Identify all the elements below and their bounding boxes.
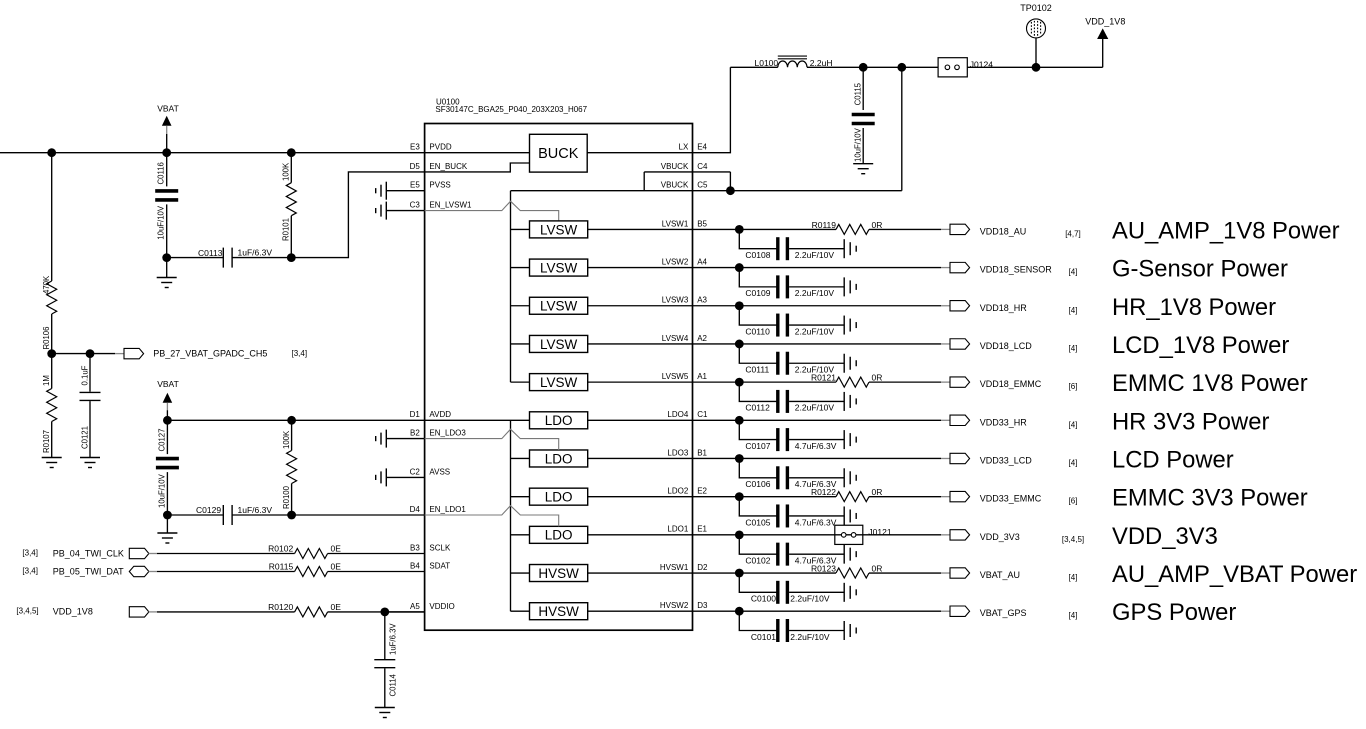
ground R0107 xyxy=(42,458,62,468)
svg-text:LVSW4: LVSW4 xyxy=(662,334,689,343)
label VDD_3V3 xyxy=(1112,523,1218,550)
wire VDD18_SENSOR xyxy=(693,267,951,269)
ground C0111 xyxy=(844,354,856,373)
svg-text:1uF/6.3V: 1uF/6.3V xyxy=(238,505,273,515)
svg-text:0R: 0R xyxy=(872,220,883,230)
pin B1 LDO3 xyxy=(667,448,707,457)
net VDD33_LCD xyxy=(980,455,1033,465)
svg-text:LCD Power: LCD Power xyxy=(1112,446,1234,473)
wire EN_LDO1 to pin D4 xyxy=(292,514,425,516)
svg-text:LDO: LDO xyxy=(545,451,573,466)
wire VDD_3V3 xyxy=(693,534,951,536)
IC U0100 body xyxy=(425,124,693,631)
svg-text:R0119: R0119 xyxy=(812,220,837,230)
svg-text:4.7uF/6.3V: 4.7uF/6.3V xyxy=(795,441,837,451)
capacitor C0121 0.1uF xyxy=(80,354,101,458)
node VDD33_HR junction xyxy=(735,416,744,425)
svg-text:VBAT_AU: VBAT_AU xyxy=(980,570,1020,580)
svg-text:VDD18_LCD: VDD18_LCD xyxy=(980,341,1033,351)
node VDD33_EMMC junction xyxy=(735,492,744,501)
svg-text:0R: 0R xyxy=(872,373,883,383)
wire PB_05_TWI_DAT xyxy=(149,571,295,573)
svg-text:100K: 100K xyxy=(282,162,291,181)
resistor R0115 0E xyxy=(269,561,341,576)
wire PB_04_TWI_CLK xyxy=(149,553,295,555)
wire BUCK to LX xyxy=(587,152,692,154)
svg-text:VDD33_HR: VDD33_HR xyxy=(980,417,1028,427)
svg-text:B5: B5 xyxy=(697,219,707,228)
wire rail to LVSW4 xyxy=(511,343,530,345)
wire VDD33_LCD xyxy=(693,457,951,459)
wire VDD18_LCD xyxy=(693,343,951,345)
IC U0100 part number xyxy=(435,105,587,114)
ref [3,4] PB_27 xyxy=(292,349,308,358)
svg-text:2.2uF/10V: 2.2uF/10V xyxy=(795,250,835,260)
net VDD33_HR xyxy=(980,417,1028,427)
svg-text:E3: E3 xyxy=(410,143,420,152)
ground C0116 xyxy=(157,258,177,288)
pin B5 LVSW1 xyxy=(662,219,708,228)
wire EN_BUCK from R0101 xyxy=(291,172,424,258)
svg-text:HVSW1: HVSW1 xyxy=(660,563,689,572)
wire HVSW11 output xyxy=(588,610,693,612)
svg-text:LDO1: LDO1 xyxy=(667,525,688,534)
node junction R0101 xyxy=(287,148,296,157)
wire J0124 to VDD_1V8 xyxy=(967,38,1102,67)
svg-text:C2: C2 xyxy=(410,467,421,476)
svg-text:C5: C5 xyxy=(697,181,708,190)
resistor R0119 0R xyxy=(812,220,883,235)
svg-text:LDO: LDO xyxy=(545,490,573,505)
svg-text:0.1uF: 0.1uF xyxy=(80,365,89,385)
wire VDD18_AU xyxy=(693,228,951,230)
svg-text:D4: D4 xyxy=(410,505,421,514)
svg-text:R0107: R0107 xyxy=(42,430,51,453)
svg-text:[3,4]: [3,4] xyxy=(292,349,308,358)
ground AVSS pin xyxy=(376,468,425,486)
capacitor C0129 1uF/6.3V xyxy=(167,505,291,525)
wire rail to HVSW10 xyxy=(511,572,530,574)
ground C0121 xyxy=(80,458,100,468)
connector flag VBAT_AU xyxy=(950,568,970,578)
pin E1 LDO1 xyxy=(667,525,707,534)
capacitor C0107 4.7uF/6.3V xyxy=(739,420,844,451)
svg-text:VBUCK: VBUCK xyxy=(661,181,689,190)
ground C0115 xyxy=(853,164,873,174)
connector J0121 xyxy=(835,525,892,544)
pin D5 EN_BUCK xyxy=(410,162,468,171)
svg-text:G-Sensor Power: G-Sensor Power xyxy=(1112,256,1288,283)
svg-text:1uF/6.3V: 1uF/6.3V xyxy=(388,623,397,655)
svg-text:[4]: [4] xyxy=(1069,611,1078,620)
wire PB_27 net xyxy=(52,353,124,355)
node VDDIO junction xyxy=(380,608,389,617)
svg-text:B4: B4 xyxy=(410,561,420,570)
wire LVSW4 output xyxy=(588,343,693,345)
wire inductor to J0124 xyxy=(807,66,938,68)
connector flag VDD33_EMMC xyxy=(950,491,970,501)
svg-text:EMMC 3V3 Power: EMMC 3V3 Power xyxy=(1112,485,1308,512)
svg-text:EN_LVSW1: EN_LVSW1 xyxy=(429,201,472,210)
svg-text:SCLK: SCLK xyxy=(429,543,451,552)
resistor R0120 0E xyxy=(268,602,341,617)
svg-text:A2: A2 xyxy=(697,334,707,343)
node VDD18_EMMC junction xyxy=(735,378,744,387)
block LVSW row3 xyxy=(530,297,588,314)
svg-text:HVSW: HVSW xyxy=(538,604,579,619)
svg-text:C0127: C0127 xyxy=(157,429,166,452)
svg-text:[4]: [4] xyxy=(1069,458,1078,467)
block LDO row7 xyxy=(530,450,588,467)
pin B2 EN_LDO3 xyxy=(410,429,466,438)
resistor R0121 0R xyxy=(811,373,882,388)
svg-text:VDDIO: VDDIO xyxy=(429,602,454,611)
wire VBUCK feedback xyxy=(901,67,903,190)
wire PB_04_TWI_CLK to IC xyxy=(328,553,425,555)
ref [4] row7 xyxy=(1069,458,1078,467)
svg-text:SF30147C_BGA25_P040_203X203_H0: SF30147C_BGA25_P040_203X203_H067 xyxy=(435,105,587,114)
svg-text:GPS Power: GPS Power xyxy=(1112,599,1236,626)
ground C0102 xyxy=(844,545,856,564)
wire rail to HVSW11 xyxy=(511,610,530,612)
pin E5 PVSS xyxy=(410,181,451,190)
block LDO row6 xyxy=(530,412,588,429)
capacitor C0110 2.2uF/10V xyxy=(739,306,844,337)
connector flag VBAT_GPS xyxy=(950,606,970,616)
svg-text:470K: 470K xyxy=(42,275,51,294)
svg-text:D5: D5 xyxy=(410,162,421,171)
svg-text:4.7uF/6.3V: 4.7uF/6.3V xyxy=(795,517,837,527)
svg-text:0E: 0E xyxy=(331,561,342,571)
capacitor C0113 1uF/6.3V xyxy=(167,247,292,267)
svg-text:LVSW5: LVSW5 xyxy=(662,372,689,381)
svg-text:C0106: C0106 xyxy=(745,479,770,489)
svg-text:[3,4,5]: [3,4,5] xyxy=(1062,535,1084,544)
svg-text:HVSW: HVSW xyxy=(538,566,579,581)
wire AVDD rail xyxy=(167,419,424,421)
wire VDD33_EMMC xyxy=(693,496,951,498)
svg-text:LVSW: LVSW xyxy=(540,222,578,237)
wire LVSW supply rail xyxy=(510,191,512,382)
wire rail to LDO9 xyxy=(511,534,530,536)
wire rail to LVSW1 xyxy=(511,228,530,230)
connector flag VDD33_HR xyxy=(950,415,970,425)
svg-text:R0101: R0101 xyxy=(282,218,291,241)
svg-text:BUCK: BUCK xyxy=(538,146,579,162)
svg-text:1M: 1M xyxy=(42,375,51,386)
ground C0100 xyxy=(844,583,856,602)
svg-text:VDD33_EMMC: VDD33_EMMC xyxy=(980,494,1042,504)
label LCD_1V8 Power xyxy=(1112,332,1289,359)
ground EN_LDO3 pin xyxy=(376,430,425,448)
power symbol VBAT xyxy=(157,103,179,152)
pin A2 LVSW4 xyxy=(662,334,708,343)
svg-text:VBUCK: VBUCK xyxy=(661,162,689,171)
svg-text:R0120: R0120 xyxy=(268,602,293,612)
inductor L0100 2.2uH xyxy=(755,56,833,68)
wire LDO8 output xyxy=(588,496,693,498)
node R0101 bottom junction xyxy=(287,253,296,262)
ground C0106 xyxy=(844,468,856,487)
ref [4] row10 xyxy=(1069,573,1078,582)
node VBAT_AU junction xyxy=(735,569,744,578)
node junction R0100 xyxy=(287,416,296,425)
net VDD_1V8 xyxy=(53,607,93,617)
svg-text:C0100: C0100 xyxy=(751,594,776,604)
block LVSW row2 xyxy=(530,259,588,276)
ground C0105 xyxy=(844,506,856,525)
ground C0101 xyxy=(844,621,856,640)
ref [4] row2 xyxy=(1069,268,1078,277)
ground EN_LVSW1 pin xyxy=(376,202,425,220)
wire buck output top xyxy=(730,66,777,68)
wire LDO supply rail xyxy=(510,420,512,611)
pin A3 LVSW3 xyxy=(662,296,708,305)
svg-text:LDO4: LDO4 xyxy=(667,410,688,419)
resistor R0107 1M xyxy=(42,354,57,458)
net VBAT_AU xyxy=(980,570,1020,580)
svg-text:EN_LDO3: EN_LDO3 xyxy=(429,429,466,438)
svg-text:VBAT: VBAT xyxy=(157,379,179,389)
wire rail to LVSW2 xyxy=(511,267,530,269)
svg-text:C0111: C0111 xyxy=(745,365,769,375)
wire VDD33_HR xyxy=(693,419,951,421)
connector flag PB_05_TWI_DAT xyxy=(129,566,149,576)
svg-text:E4: E4 xyxy=(697,143,707,152)
svg-text:LDO: LDO xyxy=(545,528,573,543)
svg-text:EN_BUCK: EN_BUCK xyxy=(429,162,467,171)
label AU_AMP_1V8 Power xyxy=(1112,217,1340,244)
ref [4] row11 xyxy=(1069,611,1078,620)
pin A1 LVSW5 xyxy=(662,372,708,381)
ref [6] row5 xyxy=(1069,382,1078,391)
svg-text:C0110: C0110 xyxy=(745,326,770,336)
svg-text:A1: A1 xyxy=(697,372,707,381)
net VDD18_HR xyxy=(980,303,1028,313)
svg-text:A4: A4 xyxy=(697,257,707,266)
label EMMC 3V3 Power xyxy=(1112,485,1308,512)
wire LVSW1 output xyxy=(588,228,693,230)
svg-text:AU_AMP_VBAT Power: AU_AMP_VBAT Power xyxy=(1112,561,1357,588)
connector flag VDD_1V8 xyxy=(129,607,149,617)
block LDO row9 xyxy=(530,526,588,543)
net VDD_3V3 xyxy=(980,532,1020,542)
svg-text:LX: LX xyxy=(679,143,689,152)
connector flag VDD_3V3 xyxy=(950,530,970,540)
svg-text:C0114: C0114 xyxy=(388,673,397,696)
svg-text:LVSW3: LVSW3 xyxy=(662,296,689,305)
svg-text:[3,4,5]: [3,4,5] xyxy=(16,607,38,616)
connector flag VDD18_LCD xyxy=(950,339,970,349)
connector flag PB_04_TWI_CLK xyxy=(129,548,149,558)
wire PB_05_TWI_DAT to IC xyxy=(328,571,425,573)
ground C0109 xyxy=(844,277,856,296)
node junction C0116 xyxy=(162,148,171,157)
svg-text:LCD_1V8 Power: LCD_1V8 Power xyxy=(1112,332,1289,359)
svg-text:C0129: C0129 xyxy=(196,505,221,515)
svg-text:R0102: R0102 xyxy=(268,543,293,553)
wire PVDD to BUCK xyxy=(425,152,530,154)
pin A5 VDDIO xyxy=(410,602,455,611)
svg-text:C0105: C0105 xyxy=(745,517,770,527)
ref [4,7] row1 xyxy=(1065,229,1081,238)
node C0127 gnd junction xyxy=(163,511,172,520)
svg-text:VDD33_LCD: VDD33_LCD xyxy=(980,455,1033,465)
svg-text:LVSW: LVSW xyxy=(540,375,578,390)
svg-text:AVDD: AVDD xyxy=(429,410,451,419)
wire VBUCK C5 rail xyxy=(511,190,902,192)
pin C4 VBUCK xyxy=(661,162,708,171)
node TP0102 junction xyxy=(1032,63,1041,72)
svg-text:C4: C4 xyxy=(697,162,708,171)
node PB_27 junction xyxy=(47,349,94,358)
net VBAT_GPS xyxy=(980,608,1027,618)
capacitor C0127 10uF/10V xyxy=(156,420,179,515)
svg-text:R0121: R0121 xyxy=(811,373,836,383)
pin D3 HVSW2 xyxy=(660,601,708,610)
svg-text:AU_AMP_1V8 Power: AU_AMP_1V8 Power xyxy=(1112,217,1340,244)
svg-text:J0124: J0124 xyxy=(970,60,993,70)
node junction C0127 xyxy=(163,416,172,425)
pin D4 EN_LDO1 xyxy=(410,505,467,514)
connector flag VDD33_LCD xyxy=(950,453,970,463)
node VBUCK top junction xyxy=(897,63,906,72)
svg-text:R0115: R0115 xyxy=(269,561,294,571)
svg-text:D3: D3 xyxy=(697,601,708,610)
connector PB_27 flag xyxy=(124,348,144,358)
capacitor C0108 2.2uF/10V xyxy=(739,229,844,260)
svg-text:A5: A5 xyxy=(410,602,420,611)
node VDD_3V3 junction xyxy=(735,530,744,539)
svg-text:C0102: C0102 xyxy=(745,555,770,565)
svg-text:LDO: LDO xyxy=(545,413,573,428)
wire LVSW5 output xyxy=(588,381,693,383)
pin C3 EN_LVSW1 xyxy=(410,201,472,210)
label EMMC 1V8 Power xyxy=(1112,370,1308,397)
label HR_1V8 Power xyxy=(1112,294,1276,321)
svg-text:R0106: R0106 xyxy=(42,327,51,350)
svg-text:HVSW2: HVSW2 xyxy=(660,601,689,610)
ref [6] row8 xyxy=(1069,497,1078,506)
svg-text:B2: B2 xyxy=(410,429,420,438)
label LCD Power xyxy=(1112,446,1234,473)
wire EN_LDO3 internal xyxy=(425,429,559,450)
wire VDD_1V8 xyxy=(149,611,295,613)
capacitor C0115 10uF/10V xyxy=(852,67,875,163)
svg-text:TP0102: TP0102 xyxy=(1020,3,1052,13)
svg-text:[3,4]: [3,4] xyxy=(22,548,38,557)
node VDD18_LCD junction xyxy=(735,340,744,349)
svg-text:C1: C1 xyxy=(697,410,708,419)
svg-text:0E: 0E xyxy=(331,543,342,553)
wire VBAT rail to PVDD xyxy=(0,152,425,154)
net PB_05_TWI_DAT xyxy=(53,566,124,576)
wire VDD18_HR xyxy=(693,305,951,307)
block LDO row8 xyxy=(530,488,588,505)
svg-text:B1: B1 xyxy=(697,448,707,457)
ground C0108 xyxy=(844,239,856,258)
resistor R0122 0R xyxy=(811,487,882,502)
resistor R0102 0E xyxy=(268,543,341,558)
connector flag VDD18_HR xyxy=(950,301,970,311)
svg-text:C0101: C0101 xyxy=(751,632,776,642)
svg-text:1uF/6.3V: 1uF/6.3V xyxy=(238,247,273,257)
svg-text:[6]: [6] xyxy=(1069,497,1078,506)
net PB_04_TWI_CLK xyxy=(53,548,124,558)
node VDD33_LCD junction xyxy=(735,454,744,463)
capacitor C0106 4.7uF/6.3V xyxy=(739,458,844,489)
pin C5 VBUCK xyxy=(661,181,708,190)
ground C0110 xyxy=(844,316,856,335)
svg-text:E2: E2 xyxy=(697,487,707,496)
wire VBUCK C4 link xyxy=(644,172,730,191)
pin D1 AVDD xyxy=(410,410,452,419)
wire LX up xyxy=(693,67,731,152)
capacitor C0101 2.2uF/10V xyxy=(739,611,844,642)
pin C2 AVSS xyxy=(410,467,451,476)
svg-text:VDD_3V3: VDD_3V3 xyxy=(980,532,1020,542)
testpoint TP0102 xyxy=(1020,3,1052,67)
svg-text:2.2uF/10V: 2.2uF/10V xyxy=(795,403,835,413)
wire VDDIO to pin A5 xyxy=(385,611,425,613)
connector J0124 xyxy=(938,58,993,77)
svg-text:[3,4]: [3,4] xyxy=(22,566,38,575)
svg-text:10uF/10V: 10uF/10V xyxy=(157,205,166,240)
svg-text:L0100: L0100 xyxy=(755,58,779,68)
ref [3,4] xyxy=(22,548,38,557)
ground C0114 xyxy=(375,708,395,718)
svg-text:PB_04_TWI_CLK: PB_04_TWI_CLK xyxy=(53,548,124,558)
wire LDO6 output xyxy=(588,419,693,421)
node VDD18_AU junction xyxy=(735,225,744,234)
svg-text:C0115: C0115 xyxy=(854,82,863,105)
capacitor C0114 1uF/6.3V xyxy=(374,612,397,708)
pin E2 LDO2 xyxy=(667,487,707,496)
ground PVSS pin xyxy=(376,182,425,200)
resistor R0101 100K xyxy=(282,153,297,258)
resistor R0106 470K xyxy=(42,153,57,354)
svg-text:LDO2: LDO2 xyxy=(667,487,688,496)
svg-text:LVSW: LVSW xyxy=(540,299,578,314)
label HR 3V3 Power xyxy=(1112,408,1269,435)
node VDD18_HR junction xyxy=(735,301,744,310)
ref [3,4,5] row9 xyxy=(1062,535,1084,544)
svg-text:PVSS: PVSS xyxy=(429,181,450,190)
svg-text:R0100: R0100 xyxy=(282,485,291,509)
svg-text:0E: 0E xyxy=(331,602,342,612)
svg-text:LVSW2: LVSW2 xyxy=(662,257,689,266)
ground C0127 xyxy=(157,515,177,543)
ground C0107 xyxy=(844,430,856,449)
pin B3 SCLK xyxy=(410,543,451,552)
wire VBAT_AU xyxy=(693,572,951,574)
wire VDD_1V8 to IC xyxy=(328,611,425,613)
ref [3,4,5] xyxy=(16,607,38,616)
svg-text:[4]: [4] xyxy=(1069,344,1078,353)
wire rail to LDO8 xyxy=(511,496,530,498)
svg-text:VDD18_HR: VDD18_HR xyxy=(980,303,1028,313)
connector flag VDD18_AU xyxy=(950,224,970,234)
svg-text:[4]: [4] xyxy=(1069,573,1078,582)
svg-text:SDAT: SDAT xyxy=(429,561,450,570)
svg-text:R0123: R0123 xyxy=(811,563,836,573)
wire rail to LVSW5 xyxy=(511,381,530,383)
svg-text:2.2uF/10V: 2.2uF/10V xyxy=(790,594,830,604)
svg-text:[4]: [4] xyxy=(1069,420,1078,429)
node VBAT_GPS junction xyxy=(735,607,744,616)
svg-text:VDD18_AU: VDD18_AU xyxy=(980,226,1027,236)
pin E3 PVDD xyxy=(410,143,452,152)
